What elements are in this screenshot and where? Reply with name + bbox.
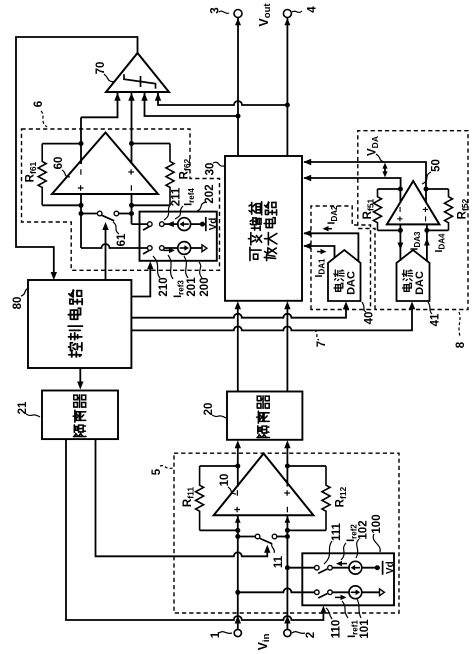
svg-text:102: 102 [357,520,369,539]
switch S61 contact left [97,211,102,216]
wire terminal4 to box30 [286,18,288,157]
switch S11 contact right [272,534,277,539]
wire U10 left output to isolator20 [237,444,239,487]
box20 text geliqi [257,426,269,438]
current arrow Iref1 [335,596,342,598]
current DAC 41 [397,250,430,301]
leader label Iref4 [175,206,183,219]
wire terminal3 to box30 [237,18,239,157]
leader label 4 [292,11,302,12]
node U60 left output [79,141,84,146]
node U60 right input a [129,203,134,208]
svg-text:20: 20 [203,403,215,416]
svg-text:+: + [396,216,407,222]
control circuit box 80 [28,280,131,368]
switch S211 contact right [160,222,165,227]
box30 text kebianzengyi [250,247,261,260]
node railA tap right [285,565,290,570]
open arrow railB output [380,589,385,596]
resistor Rf11 [196,466,204,530]
node railB tap left [235,590,240,595]
box30 text fangdadianlu [264,248,276,261]
svg-text:−: − [421,216,432,222]
switch S210 contact left [148,246,153,251]
leader label 20 [212,415,226,418]
svg-text:+: + [75,185,87,191]
leader label Iref2 [341,543,346,560]
isolator box 20 [227,392,302,440]
leader label 202 [197,202,206,211]
leader label 6 [41,111,47,127]
dashed block 5 outline [174,453,399,613]
leader label 7 [314,330,319,340]
wire U60 left input [80,194,82,248]
node U10 left input b [235,534,240,539]
switch S61 wire left [81,213,97,215]
wire Rf62 top rail [132,143,171,145]
svg-text:+: + [421,206,432,212]
switch S110 contact left [315,590,320,595]
svg-text:+: + [232,506,244,512]
resistor Rf51 [374,189,382,230]
wire U70 input1 from amp60 left output [81,93,118,117]
node U60 right output [129,141,134,146]
node T4-amp70 junction [285,103,290,108]
wire U10 right input [286,516,288,630]
svg-text:50: 50 [430,159,442,172]
node U10 left input a [235,528,240,533]
wire Rf11 bottom rail [200,529,238,531]
node rail1 Vd [200,222,205,227]
svg-text:6: 6 [33,101,45,107]
leader label 60 [62,170,70,177]
svg-text:21: 21 [17,401,29,414]
block 200 box [140,212,217,261]
block 100 box [302,553,394,605]
DAC41 text dianliu [402,283,411,291]
wire Rf52 top rail [426,188,449,190]
current arrow IDA2 [327,228,333,230]
svg-text:80: 80 [12,297,24,310]
current arrow Iref2 [340,563,347,565]
box21 text geliqi [73,425,85,437]
wire VDA upper to box30 [304,162,426,189]
wire rail1 switch to source [164,223,178,225]
svg-text:201: 201 [186,277,198,297]
arrow into control box 80 [51,272,57,280]
node U50 left input [398,228,403,233]
svg-text:3: 3 [209,7,221,13]
resistor Rf62 [166,144,174,206]
wire railB switch to source [332,591,349,593]
svg-text:11: 11 [273,555,285,568]
leader label 61 [113,222,119,234]
switch S61 wire right [119,213,132,215]
Vd bar railA [382,561,384,575]
current source 202 rail1 [178,218,191,231]
wire U50 right output tap [425,189,427,202]
current arrow Iref3 [164,249,171,251]
box80 text kongzhidianlu [69,343,82,357]
dashed block 7 outline [311,206,371,310]
switch S11 wire left [238,536,256,538]
control wire isolator21 to S11 (hop) [96,439,268,556]
leader label 200 [199,262,202,278]
wire U10 right output to isolator20 [286,444,288,487]
Vd bar rail1 [205,217,207,231]
svg-text:−: − [396,206,407,212]
current DAC 40 [328,250,361,301]
leader label 8 [459,312,460,336]
terminal 1 arrow [235,616,241,624]
wire U70 output to node A [16,37,138,278]
svg-text:8: 8 [455,341,467,348]
switch S211 lever [143,227,149,231]
leader label 50 [422,172,431,184]
switch S111 lever [318,569,327,573]
wire U50 left output tap [399,189,401,202]
node U10 left output [235,464,240,469]
wire Rf51 top rail [378,188,401,190]
leader label 10 [228,487,236,494]
svg-text:2: 2 [305,632,317,638]
current arrow IDA4 [424,238,430,246]
wire rail1 from U60 right input to block200 [132,223,148,225]
switch S111 contact left [315,565,320,570]
svg-text:Vd: Vd [208,218,219,231]
leader label 100 [373,534,380,552]
node U50 right output [424,187,429,192]
switch S111 contact right [328,565,333,570]
wire box20 to box30 left [237,305,239,392]
switch S210 lever [143,250,149,254]
terminal 4 [283,10,291,18]
wire Rf61 top rail [42,143,81,145]
wire rail2 source to output [191,247,202,249]
current arrow IDA3 [398,243,404,251]
wire U60 right input [131,194,133,224]
wire box80 to isolator21 [79,368,81,386]
wire U50 left input from DAC41 [399,224,401,261]
svg-text:211: 211 [170,187,182,206]
leader label 40 [362,302,366,312]
open arrow rail2 output [202,245,207,252]
switch S11 wire right [277,536,288,538]
wire rail1 source to Vd [191,223,205,225]
isolator box 21 [42,391,118,440]
svg-text:Vd: Vd [385,561,396,574]
leader label 11 [272,544,275,553]
leader label 211 [164,204,171,220]
node U50 left output [398,187,403,192]
node U60 left input a [79,203,84,208]
svg-text:−: − [282,506,294,512]
svg-text:110: 110 [330,620,342,639]
dashed block 6 outline [22,129,220,270]
switch S110 lever [318,594,327,598]
current source 102 railA [349,561,362,574]
current source 201 rail2 [178,242,191,255]
control wire box80 to block200 [131,265,150,297]
wire U60 right output tap [131,144,133,165]
resistor Rf52 [445,189,453,230]
op-amp U10 [214,454,314,516]
svg-text:7: 7 [316,341,328,347]
svg-text:70: 70 [95,62,107,75]
op-amp U70 limiter [106,53,169,92]
svg-text:101: 101 [359,619,371,639]
wire rail2 switch to source [164,247,178,249]
switch S11 lever [260,538,272,543]
terminal 2 arrow [284,616,290,624]
wire railA from U10 right input [287,567,314,569]
svg-text:61: 61 [116,233,128,246]
svg-text:10: 10 [219,474,231,487]
switch S61 contact right [114,211,119,216]
wire railA switch to source [332,567,349,569]
variable gain amplifier box 30 [225,156,302,301]
node T3-amp70 junction [236,114,241,119]
wire railB from U10 left input (hop) [238,588,315,592]
wire VDA lower to box30 [304,178,401,189]
current source 101 railB [349,586,362,599]
leader label 201 [184,256,188,278]
control line B box80 to DAC41 (hops) [131,305,412,330]
node U10 right input b [285,534,290,539]
svg-text:+: + [126,169,138,175]
control wire isolator21 to block100 (hops) [66,439,323,620]
leader label 1 [219,632,232,634]
svg-text:200: 200 [199,277,211,296]
wire Rf61 bottom rail [42,204,81,206]
wire U70 input4 from terminal4 net (hop over T3 wire) [158,93,287,105]
DAC40 text dianliu [334,283,343,291]
node U10 right input a [285,528,290,533]
resistor Rf61 [38,144,46,206]
wire U70 input3 from terminal3 net [145,93,239,116]
switch S210 contact right [160,246,165,251]
svg-text:DAC: DAC [345,271,357,295]
leader label 41 [428,302,432,314]
leader label 101 [357,599,361,618]
node U60 left input b [79,211,84,216]
wire railA source to Vd [362,567,380,569]
terminal 1 [234,629,241,636]
svg-text:−: − [75,169,87,175]
svg-text:+: + [282,490,294,496]
svg-text:111: 111 [331,522,343,541]
current arrow Iref4 [167,221,174,227]
VDA measurement arrow [384,166,386,174]
dashed block 8 outline [358,131,468,310]
op-amp U50 [387,181,440,224]
svg-text:DAC: DAC [414,271,426,295]
op-amp U60 [52,133,158,195]
svg-text:−: − [126,185,138,191]
svg-text:210: 210 [158,277,170,296]
svg-text:202: 202 [204,184,216,203]
terminal 3 [234,10,242,18]
svg-text:100: 100 [371,514,383,533]
node U50 right input [424,228,429,233]
wire U70 input2 from amp60 right output [131,93,133,144]
resistor Rf12 [322,466,330,530]
switch S211 contact left [148,222,153,227]
node railA Vd [375,565,380,570]
wire Rf62 bottom rail [132,204,171,206]
leader label 80 [21,288,29,296]
leader label 210 [153,256,160,278]
leader label 70 [104,74,114,82]
leader label 5 [160,466,173,469]
current arrow IDA1 [317,251,323,253]
leader label 30 [213,162,224,166]
leader label 111 [324,541,332,564]
svg-text:4: 4 [306,6,318,13]
node U60 right input b [129,211,134,216]
leader label 110 [326,608,332,619]
wire Rf11 top rail [200,465,238,467]
svg-text:−: − [232,490,244,496]
switch S61 lever [102,215,114,221]
wire railB source to output [362,591,380,593]
wire U50 right input from DAC41 [426,224,428,261]
leader label 3 [219,11,229,13]
terminal 2 [284,629,291,636]
leader label Iref3 [168,255,173,279]
wire U10 left input [237,516,239,630]
switch S11 contact left [255,534,260,539]
control wire to S61 from box80 [105,226,107,280]
switch S110 contact right [328,590,333,595]
wire Rf51 bottom rail [378,229,401,231]
leader label Iref1 [342,601,348,618]
leader label 21 [26,414,40,417]
leader label 102 [356,539,359,558]
wire IDA2 DAC40 to box30 [304,233,358,261]
leader label VDA [376,154,384,162]
wire Rf12 bottom rail [287,529,326,531]
wire IDA1 DAC40 to box30 [304,246,335,258]
leader label 2 [292,632,305,634]
wire rail2 from U60 left input to block200 (hop over S61 control) [81,244,148,248]
svg-text:41: 41 [429,313,441,326]
svg-text:60: 60 [53,157,65,170]
wire U60 left output tap [80,117,82,164]
svg-text:40: 40 [363,312,375,325]
node U10 right output [285,464,290,469]
svg-text:30: 30 [204,163,216,176]
control line A box80 to DAC40 (hops) [131,305,346,318]
wire Rf12 top rail [287,465,326,467]
wire Rf52 bottom rail [427,229,449,231]
limiter symbol inside U70 [124,74,156,88]
svg-text:5: 5 [151,468,163,475]
wire box20 to box30 right [286,305,288,392]
